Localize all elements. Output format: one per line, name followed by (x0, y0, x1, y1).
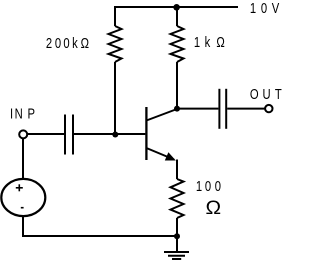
wire 1k bottom lead to collector node (176, 62, 178, 109)
svg-text:0: 0 (63, 35, 69, 52)
source V1 plus sign (16, 184, 23, 191)
transistor Q1 emitter lead (146, 148, 174, 160)
svg-text:Ω: Ω (216, 34, 224, 51)
label 1kΩ (194, 34, 225, 51)
svg-text:1: 1 (194, 34, 200, 51)
wire 200k top lead (114, 6, 116, 26)
wire collector to C2 (177, 108, 218, 110)
svg-text:0: 0 (261, 0, 267, 16)
wire emitter to R3 (176, 160, 178, 180)
svg-text:Ω: Ω (81, 35, 89, 52)
svg-text:k: k (72, 35, 78, 52)
svg-text:U: U (263, 85, 271, 102)
transistor Q1 collector lead (146, 109, 177, 121)
wire C2 to OUT (227, 108, 264, 110)
wire ground stem (176, 236, 178, 252)
svg-text:0: 0 (205, 177, 211, 194)
node ground junction (174, 233, 180, 239)
wire bottom rail (23, 235, 177, 237)
ground (164, 252, 189, 259)
svg-text:1: 1 (250, 0, 256, 16)
svg-text:Ω: Ω (205, 198, 221, 219)
wire source to bottom rail (22, 216, 24, 237)
capacitor C2 output (219, 89, 226, 129)
terminal OUT (265, 105, 272, 112)
wire INP down to source (22, 139, 24, 179)
source V1 (1, 179, 45, 216)
wire R3 to ground node (176, 218, 178, 236)
transistor Q1 emitter arrow (165, 152, 176, 160)
resistor R3 100Ω (171, 179, 184, 218)
svg-text:O: O (250, 85, 259, 102)
label 100 (196, 177, 221, 194)
capacitor C1 input (65, 115, 73, 155)
svg-text:1: 1 (196, 177, 202, 194)
svg-text:N: N (15, 105, 23, 122)
wire C1 to base (74, 133, 145, 135)
label OUT (250, 85, 282, 102)
svg-text:I: I (10, 105, 13, 122)
resistor R2 1kΩ (171, 26, 184, 62)
svg-text:T: T (275, 85, 282, 102)
terminal INP (19, 130, 27, 138)
svg-text:V: V (272, 0, 280, 16)
transistor Q1 base bar (145, 107, 147, 160)
node collector junction (174, 106, 180, 112)
wire 200k bottom lead to base node (114, 62, 116, 134)
resistor R1 200kΩ (109, 26, 122, 62)
node top junction (173, 4, 180, 11)
source V1 minus sign (21, 207, 24, 209)
wire top rail 10V (114, 6, 238, 8)
label 10V (250, 0, 280, 16)
svg-text:P: P (27, 105, 35, 122)
svg-text:0: 0 (55, 35, 61, 52)
node base junction (112, 132, 118, 138)
svg-text:2: 2 (46, 35, 52, 52)
wire 1k top lead (176, 7, 178, 26)
wire INP to C1 (28, 133, 65, 135)
svg-text:0: 0 (215, 177, 221, 194)
label INP (10, 105, 35, 122)
label 200kΩ (46, 35, 89, 52)
svg-text:k: k (205, 34, 211, 51)
